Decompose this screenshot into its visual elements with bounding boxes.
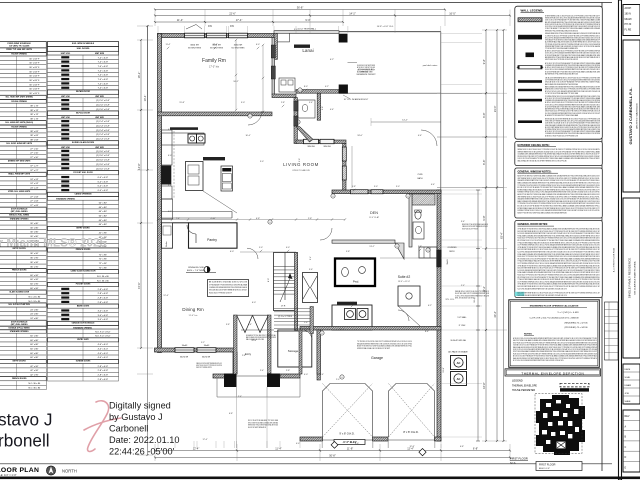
svg-text:A/C PADS ON GRADE: A/C PADS ON GRADE xyxy=(448,351,468,354)
garage apron stubs xyxy=(322,441,324,448)
svg-text:17'-4": 17'-4" xyxy=(212,44,217,46)
vanity den bath xyxy=(413,222,424,239)
svg-text:pool deck notes: pool deck notes xyxy=(423,64,438,67)
svg-text:GARAGE DOOR SCHEDULE: GARAGE DOOR SCHEDULE xyxy=(72,321,96,324)
svg-text:SGL. B-FOLD PUMP DRS: SGL. B-FOLD PUMP DRS xyxy=(8,304,30,306)
svg-text:GYP BD EA SIDE TYP UNO SEE STR: GYP BD EA SIDE TYP UNO SEE STRUCT DWGS F… xyxy=(209,283,247,286)
wall legend box xyxy=(515,6,603,139)
svg-text:Digitally signed: Digitally signed xyxy=(109,401,171,411)
svg-text:6'-0": 6'-0" xyxy=(350,302,354,304)
svg-text:2'-8" x 6'-8": 2'-8" x 6'-8" xyxy=(98,298,109,300)
suite bath walls xyxy=(398,286,420,306)
svg-text:60" x 80": 60" x 80" xyxy=(30,349,39,351)
svg-text:7'-4" x 6'-8": 7'-4" x 6'-8" xyxy=(98,57,109,59)
svg-text:36x63: 36x63 xyxy=(447,259,449,264)
svg-text:7'-4" x 6'-8": 7'-4" x 6'-8" xyxy=(98,75,109,77)
svg-text:15'-8": 15'-8" xyxy=(179,102,185,104)
svg-text:N.O. 9'-0" x 8'-0": N.O. 9'-0" x 8'-0" xyxy=(95,336,111,338)
svg-text:5'-4": 5'-4" xyxy=(310,256,312,260)
svg-text:ROUGH OPENING: ROUGH OPENING xyxy=(11,126,27,128)
garage left wall xyxy=(317,330,320,380)
svg-text:BEAM COLUMN AND LINTEL SIZES A: BEAM COLUMN AND LINTEL SIZES AND REINFOR… xyxy=(545,83,578,86)
svg-text:37" x 27": 37" x 27" xyxy=(30,166,39,168)
svg-text:OPEN TO ABOVE: OPEN TO ABOVE xyxy=(292,169,310,172)
svg-text:SCALE: 1/4" = 1'-0": SCALE: 1/4" = 1'-0" xyxy=(0,473,17,477)
svg-text:40'-4": 40'-4" xyxy=(493,311,497,318)
title bar divider line xyxy=(0,463,612,465)
svg-text:60" x 80": 60" x 80" xyxy=(30,357,39,359)
svg-text:Butler: Butler xyxy=(165,241,168,247)
svg-text:BARN DOORS: BARN DOORS xyxy=(77,304,90,307)
svg-text:Date: 2022.01.10: Date: 2022.01.10 xyxy=(109,435,180,445)
window unit dining xyxy=(197,348,216,353)
deck joint line 1 xyxy=(437,136,497,138)
window unit dining xyxy=(175,348,194,353)
svg-text:2'-0": 2'-0" xyxy=(336,379,340,381)
svg-text:37" x 27": 37" x 27" xyxy=(30,170,39,172)
svg-text:22'-6": 22'-6" xyxy=(229,11,236,15)
svg-text:72" x 96": 72" x 96" xyxy=(99,254,108,256)
svg-text:(2) 2'-0" x 6'-8": (2) 2'-0" x 6'-8" xyxy=(96,100,110,102)
svg-text:30" x 80": 30" x 80" xyxy=(30,227,39,229)
svg-text:11'-4" FLAT: 11'-4" FLAT xyxy=(369,216,380,219)
bottom dim extension verticals xyxy=(154,444,156,461)
laundry label xyxy=(337,302,357,305)
sliding glass door schedule table (second column) xyxy=(48,42,119,47)
A/C pads xyxy=(451,356,467,370)
svg-text:24" x 24": 24" x 24" xyxy=(30,183,39,185)
dining bay jog wall xyxy=(233,352,237,374)
svg-text:Dining Rm: Dining Rm xyxy=(182,307,204,312)
svg-text:14'-2": 14'-2" xyxy=(349,11,356,15)
svg-text:60" x 80": 60" x 80" xyxy=(99,202,108,204)
svg-text:PATIO: PATIO xyxy=(449,250,455,253)
svg-text:13'-4" x 12'-0": 13'-4" x 12'-0" xyxy=(398,281,411,283)
svg-text:42" x 96": 42" x 96" xyxy=(30,366,39,368)
title strip box: small grid xyxy=(623,364,640,404)
svg-text:38" x 63": 38" x 63" xyxy=(30,140,39,142)
svg-text:16'-8": 16'-8" xyxy=(482,382,486,389)
svg-text:63'-4": 63'-4" xyxy=(499,232,503,239)
svg-text:6'-0" x 6'-8": 6'-0" x 6'-8" xyxy=(98,181,109,183)
dryer xyxy=(357,309,368,320)
svg-text:9'-0": 9'-0" xyxy=(241,102,245,104)
svg-text:5'-8" WALL: 5'-8" WALL xyxy=(457,316,466,319)
svg-text:(2) 3'-0" x 6'-8": (2) 3'-0" x 6'-8" xyxy=(96,168,110,170)
svg-text:4'-4": 4'-4" xyxy=(330,109,334,111)
svg-text:SMALL FIXED IMP. UNITS: SMALL FIXED IMP. UNITS xyxy=(8,172,31,175)
general door notes box xyxy=(515,221,603,298)
legend sample: thin solid bar 1 xyxy=(518,80,542,83)
svg-text:7'-4" x 6'-8": 7'-4" x 6'-8" xyxy=(98,88,109,90)
stair right wall (hatched) xyxy=(295,253,298,331)
closet shelves right of den bath xyxy=(423,247,425,258)
svg-text:BI-FOLD DOOR: BI-FOLD DOOR xyxy=(76,112,90,114)
svg-text:13'-8": 13'-8" xyxy=(443,367,445,373)
svg-text:2'-8" x 6'-8": 2'-8" x 6'-8" xyxy=(98,289,109,291)
diamond marker 1 xyxy=(331,442,338,449)
svg-text:3060 SH: 3060 SH xyxy=(234,45,243,47)
svg-text:(2) 3'-0" x 6'-8": (2) 3'-0" x 6'-8" xyxy=(96,164,110,166)
cab dark label above counter xyxy=(170,127,198,130)
kitchen counter top run xyxy=(162,133,205,145)
svg-text:4'-0" x 6'-0": 4'-0" x 6'-0" xyxy=(98,344,109,346)
exterior wall: right side (suite/garage) xyxy=(437,190,441,441)
pantry top wall segment xyxy=(173,222,189,224)
svg-text:10'-8" x 6'-8" CLG: 10'-8" x 6'-8" CLG xyxy=(377,26,394,28)
svg-text:2'-8" x 6'-8": 2'-8" x 6'-8" xyxy=(98,302,109,304)
garage bottom wall segments xyxy=(300,437,323,441)
svg-text:ENTRY DOORS: ENTRY DOORS xyxy=(76,228,90,230)
svg-text:8" CMU: 8" CMU xyxy=(459,325,466,327)
svg-text:60" x 80": 60" x 80" xyxy=(30,344,39,346)
svg-text:DRAW: DRAW xyxy=(625,384,633,387)
svg-text:WALLS SHALL BE 8 IN CMU: WALLS SHALL BE 8 IN CMU xyxy=(246,338,265,341)
svg-text:(INT.) FULL SWING: (INT.) FULL SWING xyxy=(11,324,28,326)
svg-text:MIAMI: MIAMI xyxy=(625,18,632,21)
svg-text:BI-PASS DOOR: BI-PASS DOOR xyxy=(76,90,90,93)
svg-text:42" x 96": 42" x 96" xyxy=(99,233,108,235)
svg-text:2'-8" x 6'-8": 2'-8" x 6'-8" xyxy=(98,366,109,368)
svg-text:3'-0" x 6'-8": 3'-0" x 6'-8" xyxy=(98,315,109,317)
entry front wall right segment xyxy=(280,374,300,378)
suite bath shower hatch xyxy=(412,194,435,205)
legend sample: hollow wall with ends xyxy=(518,66,542,69)
svg-text:STANDARD OPENING: STANDARD OPENING xyxy=(56,197,75,200)
den bottom diagonal xyxy=(395,243,404,259)
svg-text:38" x 63": 38" x 63" xyxy=(30,135,39,137)
svg-text:6'-8": 6'-8" xyxy=(460,446,464,448)
wall jog lanai-living 1 xyxy=(272,94,296,98)
svg-text:14'-8": 14'-8" xyxy=(137,163,141,170)
svg-text:30" x 63" F: 30" x 63" F xyxy=(29,93,40,95)
svg-text:FIRST FLOOR: FIRST FLOOR xyxy=(539,463,556,466)
svg-text:DATE: DATE xyxy=(625,368,631,371)
svg-text:2'-8": 2'-8" xyxy=(304,322,308,324)
engineered floor openings calculation box xyxy=(509,300,600,368)
svg-text:3'-8": 3'-8" xyxy=(322,106,324,110)
svg-text:(2) 3'-0" x 6'-8": (2) 3'-0" x 6'-8" xyxy=(96,151,110,153)
svg-text:4'-4": 4'-4" xyxy=(248,324,252,326)
svg-text:AND REINFORCING TYP ALL EXTERI: AND REINFORCING TYP ALL EXTERIOR WALLS S… xyxy=(545,72,578,75)
lanai/pool deck bottom edge xyxy=(348,92,441,94)
interior dim string: family rm vertical xyxy=(235,40,237,110)
svg-text:3'-4": 3'-4" xyxy=(461,221,465,223)
svg-text:SEPARATE PERMIT: SEPARATE PERMIT xyxy=(356,73,376,76)
stair up arrow xyxy=(280,276,291,302)
svg-text:ENGINEERED FLOOR OPENINGS CALC: ENGINEERED FLOOR OPENINGS CALCULATION xyxy=(530,305,579,308)
fridge (dark) xyxy=(161,166,172,185)
svg-text:6'-8": 6'-8" xyxy=(256,218,260,220)
svg-text:GENERAL DOOR NOTES:: GENERAL DOOR NOTES: xyxy=(518,223,549,226)
svg-text:SGL. SLDR. HUNG IMP. UNITS: SGL. SLDR. HUNG IMP. UNITS xyxy=(6,143,33,145)
small fixtures center hall (x296-317,y97-140) xyxy=(298,100,315,118)
extension lines bottom xyxy=(157,441,159,448)
svg-text:60" x 80": 60" x 80" xyxy=(99,220,108,222)
svg-text:ELEV. 0'-0": ELEV. 0'-0" xyxy=(539,468,550,470)
svg-text:5'-0": 5'-0" xyxy=(259,247,263,249)
svg-text:10'-0" HIGH WALL: 10'-0" HIGH WALL xyxy=(298,28,317,31)
svg-text:30" x 63" F: 30" x 63" F xyxy=(29,89,40,91)
svg-text:11'-4": 11'-4" xyxy=(166,44,171,46)
sheet top border line xyxy=(0,2,612,4)
lanai small ledge xyxy=(277,33,289,42)
svg-text:(REQUIRED) 75 = 327.36: (REQUIRED) 75 = 327.36 xyxy=(564,323,588,325)
svg-text:17'-3" hts: 17'-3" hts xyxy=(209,66,220,69)
svg-text:(2) 2'-0" x 6'-8": (2) 2'-0" x 6'-8" xyxy=(96,109,110,111)
svg-text:(2) 3'-0" x 6'-8": (2) 3'-0" x 6'-8" xyxy=(96,155,110,157)
svg-text:(2) 2'-0" x 6'-8": (2) 2'-0" x 6'-8" xyxy=(96,104,110,106)
title strip box: project name (rotated) xyxy=(623,198,640,358)
svg-text:R-4.1 FI-FOIL INSULATION INTER: R-4.1 FI-FOIL INSULATION INTERIOR PARTIT… xyxy=(518,294,568,297)
bottom dimension rows xyxy=(155,450,237,452)
svg-text:3'-0": 3'-0" xyxy=(396,186,400,188)
window schedule table (left) xyxy=(0,42,46,48)
sheet bottom thick border xyxy=(0,477,640,480)
svg-text:17 R: 17 R xyxy=(281,306,286,308)
stair treads xyxy=(274,266,297,268)
powder sink xyxy=(359,267,366,274)
foyer west wall xyxy=(234,315,238,374)
stair flight2 side wall xyxy=(310,307,313,334)
living top wall windows xyxy=(304,139,319,143)
svg-text:11'-8": 11'-8" xyxy=(347,446,353,450)
svg-text:5'-2": 5'-2" xyxy=(201,342,205,344)
svg-text:OVER 1X2 PT FURRING STRIPS: OVER 1X2 PT FURRING STRIPS xyxy=(196,367,212,369)
svg-text:11'-4": 11'-4" xyxy=(275,446,281,450)
svg-text:SGL. HUNG IMP. UNITS (SNGLS): SGL. HUNG IMP. UNITS (SNGLS) xyxy=(5,122,33,124)
svg-text:22:44:26 -05'00': 22:44:26 -05'00' xyxy=(109,447,175,457)
svg-text:GUSTAVO J CARBONELL P.A.: GUSTAVO J CARBONELL P.A. xyxy=(628,87,633,144)
den bottom wall xyxy=(332,240,395,243)
door/window tag circles xyxy=(248,114,252,118)
svg-text:7'-4": 7'-4" xyxy=(176,218,180,220)
interior dim string den vertical xyxy=(351,146,353,188)
svg-text:42" x 96": 42" x 96" xyxy=(30,374,39,376)
svg-text:(2) 2'-4" x 6'-8": (2) 2'-4" x 6'-8" xyxy=(96,134,110,136)
svg-text:SCREEN DOORS: SCREEN DOORS xyxy=(76,361,91,363)
svg-text:8'-0": 8'-0" xyxy=(304,86,308,88)
svg-text:50'-8": 50'-8" xyxy=(329,453,336,457)
svg-text:3'-6": 3'-6" xyxy=(309,269,313,271)
svg-text:MTRD. SGL. HUNG UNITS: MTRD. SGL. HUNG UNITS xyxy=(8,191,31,193)
svg-text:42" x 96": 42" x 96" xyxy=(30,370,39,372)
door schedule table (left, lower) xyxy=(0,207,46,213)
svg-text:9'-6": 9'-6" xyxy=(299,158,301,162)
svg-text:6'-0" x 6'-8": 6'-0" x 6'-8" xyxy=(98,177,109,179)
lanai deck right edge (thin) xyxy=(440,32,442,190)
legend sample: thin solid bar 2 xyxy=(518,89,542,91)
svg-text:21'-8": 21'-8" xyxy=(339,329,345,331)
svg-text:30" x 63" F: 30" x 63" F xyxy=(29,67,40,69)
svg-text:GLASS SLIDING DOOR: GLASS SLIDING DOOR xyxy=(9,290,30,293)
svg-text:36'-8": 36'-8" xyxy=(297,5,304,9)
svg-text:7'-4" x 6'-8": 7'-4" x 6'-8" xyxy=(98,83,109,85)
svg-text:F6: F6 xyxy=(230,24,234,28)
entry opening sill xyxy=(237,375,268,377)
svg-text:(2) 2'-4" x 6'-8": (2) 2'-4" x 6'-8" xyxy=(96,125,110,127)
svg-text:15'-6": 15'-6" xyxy=(137,282,141,289)
svg-text:NORTH: NORTH xyxy=(62,468,77,473)
outdoor kitchen counter (lanai) xyxy=(279,78,295,92)
svg-text:16'-5": 16'-5" xyxy=(449,11,456,15)
pantry room xyxy=(189,223,238,248)
svg-text:SLIDING GLASS DOORS: SLIDING GLASS DOORS xyxy=(72,141,95,144)
svg-text:IN OC W/ R-4.1 FI-FOIL INSULAT: IN OC W/ R-4.1 FI-FOIL INSULATION INTERI… xyxy=(513,359,564,362)
svg-text:38" x 74": 38" x 74" xyxy=(30,114,39,116)
svg-text:ROUGH OPENING: ROUGH OPENING xyxy=(11,54,27,56)
svg-text:5'-4": 5'-4" xyxy=(168,185,172,187)
svg-text:SGD. DOORS: SGD. DOORS xyxy=(77,48,90,50)
svg-text:60" x 80": 60" x 80" xyxy=(99,215,108,217)
svg-text:60" x 80": 60" x 80" xyxy=(99,207,108,209)
general window notes box xyxy=(515,168,603,218)
svg-text:ARCH: ARCH xyxy=(625,7,632,10)
svg-text:BE 3-5/8 IN MTL STUDS AT 16 IN: BE 3-5/8 IN MTL STUDS AT 16 IN OC W/ 1/2… xyxy=(209,281,248,284)
svg-text:D: D xyxy=(625,456,627,459)
svg-text:(2) 2'-4" x 6'-8": (2) 2'-4" x 6'-8" xyxy=(96,139,110,141)
butler cabinet xyxy=(162,223,173,248)
svg-text:2'-8" x 6'-8": 2'-8" x 6'-8" xyxy=(98,374,109,376)
svg-text:THERMAL ENVELOPE: THERMAL ENVELOPE xyxy=(512,384,537,387)
screen enc label xyxy=(294,45,310,48)
svg-text:3060 SH: 3060 SH xyxy=(190,45,199,47)
svg-text:3'-0": 3'-0" xyxy=(374,186,378,188)
svg-text:3'-0" x 6'-8": 3'-0" x 6'-8" xyxy=(98,310,109,312)
svg-text:N.O. 24 x 80: N.O. 24 x 80 xyxy=(29,301,42,303)
svg-text:6'-2": 6'-2" xyxy=(330,59,334,61)
svg-text:10'-4": 10'-4" xyxy=(245,135,250,137)
revision mini table attached to border xyxy=(605,302,619,360)
svg-text:27" x 63": 27" x 63" xyxy=(30,196,39,198)
svg-text:BD OVER 1X2: BD OVER 1X2 xyxy=(357,72,368,74)
svg-text:EXTERIOR WALLS SHALL BE 8 IN C: EXTERIOR WALLS SHALL BE 8 IN CMU BLOCK W… xyxy=(357,347,391,350)
svg-text:2'-4": 2'-4" xyxy=(238,396,242,398)
svg-text:6'-0": 6'-0" xyxy=(230,251,234,253)
storage door swing xyxy=(302,330,312,340)
svg-text:REINFORCING TYP ALL EXTERIOR W: REINFORCING TYP ALL EXTERIOR WALLS SHALL… xyxy=(545,29,578,32)
svg-text:23'-0": 23'-0" xyxy=(493,105,497,112)
svg-text:4'-0" x 6'-0": 4'-0" x 6'-0" xyxy=(98,353,109,355)
svg-text:2'-8": 2'-8" xyxy=(286,370,290,372)
svg-text:30.30 AT GRD NA: 30.30 AT GRD NA xyxy=(450,339,466,342)
svg-text:4'-10": 4'-10" xyxy=(210,218,216,220)
svg-text:AC: AC xyxy=(457,361,461,365)
svg-text:N.O. 24 x 80: N.O. 24 x 80 xyxy=(29,296,42,298)
svg-text:PH 30: PH 30 xyxy=(625,23,632,26)
legend sample: cmu hatched wall xyxy=(518,18,542,22)
finish floor elevation marker xyxy=(204,267,210,273)
svg-text:60" x 80": 60" x 80" xyxy=(30,340,39,342)
svg-text:Σ = 1 [ 5/8 ] 4 + 4.059: Σ = 1 [ 5/8 ] 4 + 4.059 xyxy=(558,312,580,314)
svg-text:REV: REV xyxy=(625,415,630,418)
svg-text:12'-8": 12'-8" xyxy=(409,446,414,448)
svg-text:A-1.0 FIRST FLOOR PLAN: A-1.0 FIRST FLOOR PLAN xyxy=(613,247,616,272)
svg-text:10" COL. W/ ANCHOR BOLT: 10" COL. W/ ANCHOR BOLT xyxy=(344,98,369,101)
svg-text:NO SHUTTERS: NO SHUTTERS xyxy=(210,47,224,49)
svg-text:BD EA SIDE TYP UNO SEE STRUCT: BD EA SIDE TYP UNO SEE STRUCT DWGS FOR A… xyxy=(545,114,578,117)
svg-text:stavo J: stavo J xyxy=(0,410,52,430)
svg-text:STANDARD OPENING: STANDARD OPENING xyxy=(73,326,92,329)
svg-text:27" x 63": 27" x 63" xyxy=(30,205,39,207)
kitchen sinks xyxy=(188,134,197,143)
svg-text:27" x 50": 27" x 50" xyxy=(30,148,39,150)
garage door sills xyxy=(322,439,373,441)
svg-text:COVERED: COVERED xyxy=(447,247,457,249)
door swing at pantry hall xyxy=(247,248,258,259)
svg-text:GROUT FILLED CELLS TYP PROVIDE: GROUT FILLED CELLS TYP PROVIDE 1/2 IN GY… xyxy=(545,59,578,61)
svg-text:N.O. 36 x 80: N.O. 36 x 80 xyxy=(29,383,42,385)
svg-text:3'-8": 3'-8" xyxy=(226,324,230,326)
svg-text:POCKET DOORS: POCKET DOORS xyxy=(76,284,91,286)
general note box (center) xyxy=(208,280,249,297)
powder room (thick black walls) xyxy=(335,259,375,287)
porch step lines xyxy=(217,396,300,398)
lanai left wall xyxy=(274,33,277,59)
diamond marker 2 xyxy=(419,449,426,456)
svg-text:6'-8": 6'-8" xyxy=(229,413,233,415)
entry column left xyxy=(224,374,237,388)
svg-text:17'-4": 17'-4" xyxy=(202,439,207,441)
svg-text:WALLS SHALL BE 8 IN CMU BLOCK: WALLS SHALL BE 8 IN CMU BLOCK W/ VERT RE… xyxy=(518,160,568,163)
svg-text:30" x 80": 30" x 80" xyxy=(30,223,39,225)
svg-text:ENTRY GATE: ENTRY GATE xyxy=(77,338,89,341)
svg-text:AT 48 IN OC GROUT FILLED CELLS: AT 48 IN OC GROUT FILLED CELLS TYP PROVI… xyxy=(545,134,579,137)
svg-text:MTL STUDS AT 16 IN OC: MTL STUDS AT 16 IN OC xyxy=(455,297,476,300)
entry double door (W shape) xyxy=(237,316,268,333)
vertical hall wall x300 xyxy=(299,330,302,374)
left vertical dim line xyxy=(147,26,149,455)
title strip box: sheet number xyxy=(623,410,640,472)
entry walkway verticals xyxy=(236,397,238,448)
pocket wall below lanai xyxy=(317,93,320,120)
garage door 1 (X brace) xyxy=(323,384,373,438)
deck joint line 2 xyxy=(437,187,503,189)
svg-text:TYP UNO SEE STRUCT DWGS FOR AL: TYP UNO SEE STRUCT DWGS FOR ALL BEAM COL… xyxy=(545,47,578,50)
lower cabinet run xyxy=(162,211,232,213)
svg-text:4'-0" x 6'-0": 4'-0" x 6'-0" xyxy=(98,357,109,359)
svg-text:16'-2": 16'-2" xyxy=(137,72,141,79)
svg-text:36" x 96": 36" x 96" xyxy=(30,262,39,264)
living room top wall xyxy=(296,140,346,144)
exterior wall: dining room bottom with windows xyxy=(155,348,235,352)
exterior ceiling note box xyxy=(515,142,603,166)
cyan highlighted final line xyxy=(515,292,525,296)
svg-text:(2) 2'-4" x 6'-8": (2) 2'-4" x 6'-8" xyxy=(96,130,110,132)
svg-text:SCAL: SCAL xyxy=(625,376,631,379)
svg-text:CASED GLASS SLIDING DOOR: CASED GLASS SLIDING DOOR xyxy=(70,270,96,273)
svg-text:60" x 96": 60" x 96" xyxy=(30,279,39,281)
svg-text:SINGLE & FULL SWING: SINGLE & FULL SWING xyxy=(9,215,30,217)
svg-text:180 N: 180 N xyxy=(625,12,632,15)
svg-text:C: C xyxy=(625,446,627,449)
svg-text:4'-8": 4'-8" xyxy=(168,129,172,131)
svg-text:SGD. WDW SCHEDULE: SGD. WDW SCHEDULE xyxy=(72,43,95,45)
svg-text:36x74 SH: 36x74 SH xyxy=(202,357,211,359)
svg-text:36" x 96": 36" x 96" xyxy=(30,253,39,255)
svg-text:R-4.1 FI-FOIL INSULATION INTER: R-4.1 FI-FOIL INSULATION INTERIOR PARTIT… xyxy=(518,287,568,290)
svg-text:EXTERIOR CEILING NOTE:: EXTERIOR CEILING NOTE: xyxy=(518,144,550,147)
svg-text:30" x 63" F: 30" x 63" F xyxy=(29,80,40,82)
svg-text:30" x 63" F: 30" x 63" F xyxy=(29,63,40,65)
svg-text:FIXED TYP. LAM. IMP. UNITS: FIXED TYP. LAM. IMP. UNITS xyxy=(6,48,32,51)
lanai column bottom xyxy=(339,85,348,94)
svg-text:LIVING ROOM: LIVING ROOM xyxy=(283,162,319,167)
svg-text:CASED OPENINGS: CASED OPENINGS xyxy=(74,193,92,196)
den width dim line xyxy=(371,121,441,123)
stair walls xyxy=(274,253,297,311)
lanai deck top edge xyxy=(277,31,441,33)
